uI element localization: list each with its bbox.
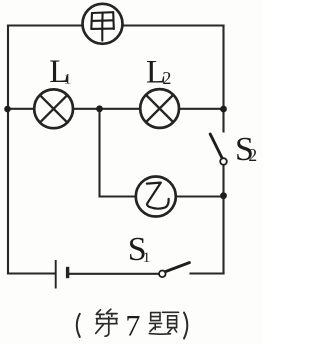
svg-text:1: 1 <box>143 250 151 266</box>
svg-text:1: 1 <box>64 72 72 88</box>
svg-text:2: 2 <box>248 145 257 165</box>
svg-text:7: 7 <box>125 309 140 342</box>
svg-text:2: 2 <box>162 68 171 88</box>
